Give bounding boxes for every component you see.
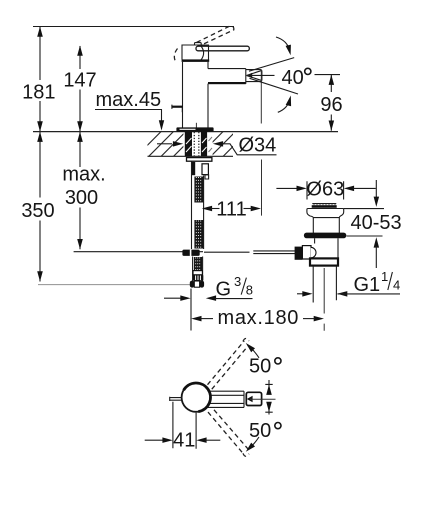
svg-text:50: 50	[249, 420, 271, 442]
faucet cap dashed arc (raised position)	[174, 49, 177, 63]
drain: dimension diameter 63	[307, 181, 344, 199]
top reference line (lever raised height)	[33, 26, 234, 28]
dimension 40-53 lower arrow	[374, 237, 380, 247]
faucet lever (solid)	[196, 46, 249, 51]
outlet drop line	[260, 70, 262, 124]
side port for pop-up rod	[295, 247, 303, 260]
top view pop-up knob	[170, 397, 182, 401]
washer bottom reference line	[347, 235, 383, 237]
svg-text:147: 147	[63, 70, 96, 92]
dimension 147 vertical line	[79, 46, 81, 132]
svg-text:50: 50	[249, 356, 271, 378]
aerator (mousseur)	[246, 70, 262, 82]
pop-up rod knob (side view)	[172, 106, 183, 108]
svg-text:40-53: 40-53	[351, 212, 402, 234]
dimension 181 vertical line	[39, 27, 41, 132]
350 bottom reference line	[38, 284, 203, 286]
deck top line	[33, 131, 338, 133]
deck bottom line	[148, 155, 234, 157]
svg-text:max.45: max.45	[96, 89, 162, 111]
drain centerline	[323, 268, 325, 331]
mounting shank cross-section below deck	[185, 132, 212, 157]
dimension max.300 vertical line	[79, 132, 81, 250]
drain seal washer	[304, 233, 346, 239]
label G1 1/4 with arrows	[297, 293, 305, 295]
spout	[208, 68, 246, 70]
top view faucet body circle	[182, 383, 211, 412]
top view dashed swivel position lower	[208, 412, 244, 455]
aerator cone	[246, 73, 252, 79]
dimension 350 vertical line	[39, 132, 41, 282]
flange top reference line	[344, 208, 384, 210]
faucet cap (cartridge cover)	[182, 45, 209, 60]
mounting nut	[191, 162, 195, 175]
drain tailpipe	[313, 266, 336, 303]
svg-text:4: 4	[393, 278, 400, 293]
svg-text:40: 40	[282, 67, 304, 89]
faucet lever raised (dashed)	[194, 26, 234, 48]
dimension diameter 34 arrows	[157, 143, 172, 145]
hose lower section	[193, 257, 203, 282]
swivel range vertical arrows	[268, 380, 270, 415]
spray angle arc arrow upper	[276, 37, 290, 51]
deck hatching	[136, 132, 260, 157]
G3/8 connection nut	[190, 281, 195, 288]
circle thick arc	[184, 383, 211, 412]
dimension 40-53 upper arrow	[375, 180, 377, 198]
svg-text:181: 181	[22, 82, 55, 104]
drain body below washer	[315, 238, 338, 259]
spray angle arc arrow lower	[278, 99, 290, 113]
svg-text:Ø34: Ø34	[239, 134, 277, 156]
threaded rod dotted center	[194, 132, 199, 156]
lever pivot bump	[195, 43, 202, 45]
svg-text:8: 8	[246, 283, 253, 298]
svg-text:1: 1	[381, 269, 388, 284]
drain plug dome	[312, 203, 336, 205]
dimension 111	[261, 160, 263, 216]
svg-text:Ø63: Ø63	[306, 179, 344, 201]
svg-text:41: 41	[173, 430, 195, 452]
pop-up rod coupling on hose	[182, 250, 199, 256]
pop-up rod horizontal (tube, two lines)	[204, 251, 250, 253]
top view aerator	[246, 392, 261, 405]
label 40 degrees with leader	[247, 74, 275, 76]
svg-text:3: 3	[234, 274, 241, 289]
spray angle fan lines	[249, 58, 294, 72]
dimension 96	[330, 75, 332, 131]
cap bottom thick line	[182, 59, 210, 62]
svg-text:350: 350	[21, 200, 54, 222]
faucet body centerline tick	[195, 123, 197, 128]
faucet body	[182, 62, 184, 128]
50 degree arc arrow upper	[250, 347, 259, 358]
svg-text:max.: max.	[62, 163, 105, 185]
top view dashed swivel position upper	[208, 341, 245, 385]
faucet base	[176, 127, 213, 131]
svg-text:G1: G1	[354, 274, 381, 296]
svg-text:max.180: max.180	[218, 307, 300, 329]
label max.180 with arrows	[190, 289, 192, 331]
50 degree arc arrow lower	[250, 437, 259, 448]
svg-text:111: 111	[216, 199, 246, 221]
cap inner curve	[201, 46, 204, 61]
label G 3/8 with arrows	[164, 297, 182, 299]
svg-text:96: 96	[320, 94, 342, 116]
flexible supply hose (braided)	[192, 162, 204, 250]
dimension 41	[173, 402, 196, 449]
top view spout tube lines	[200, 391, 244, 407]
drain lock nut	[310, 258, 338, 265]
max.300 bottom reference line	[74, 251, 203, 253]
hose end nut	[193, 271, 202, 275]
svg-text:G: G	[216, 278, 232, 300]
drain flange	[307, 209, 344, 234]
washer under deck	[187, 158, 212, 162]
svg-text:300: 300	[65, 187, 98, 209]
